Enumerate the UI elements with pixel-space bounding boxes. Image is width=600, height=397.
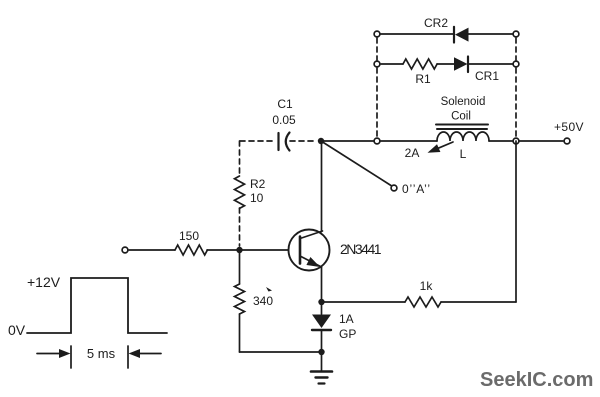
svg-text:+50V: +50V: [554, 120, 584, 134]
svg-text:2N3441: 2N3441: [340, 241, 382, 257]
svg-text:Coil: Coil: [451, 111, 471, 123]
svg-text:CR1: CR1: [475, 69, 499, 83]
svg-text:R1: R1: [415, 72, 431, 86]
svg-text:CR2: CR2: [424, 16, 448, 30]
svg-text:R2: R2: [250, 177, 266, 191]
svg-text:340: 340: [253, 294, 273, 308]
svg-text:1A: 1A: [339, 312, 354, 326]
svg-text:0’’A’’: 0’’A’’: [402, 182, 431, 196]
svg-text:1k: 1k: [420, 279, 434, 293]
svg-text:GP: GP: [339, 327, 356, 341]
svg-text:0V: 0V: [8, 322, 26, 338]
svg-text:SeekIC.com: SeekIC.com: [480, 369, 593, 391]
svg-text:0.05: 0.05: [272, 113, 296, 127]
svg-text:10: 10: [250, 191, 264, 205]
svg-text:L: L: [460, 147, 467, 161]
svg-text:2A: 2A: [405, 146, 420, 160]
svg-text:C1: C1: [277, 97, 293, 111]
svg-text:+12V: +12V: [27, 274, 61, 290]
svg-text:Solenoid: Solenoid: [441, 96, 486, 108]
svg-text:5 ms: 5 ms: [87, 346, 116, 361]
svg-text:150: 150: [179, 229, 199, 243]
